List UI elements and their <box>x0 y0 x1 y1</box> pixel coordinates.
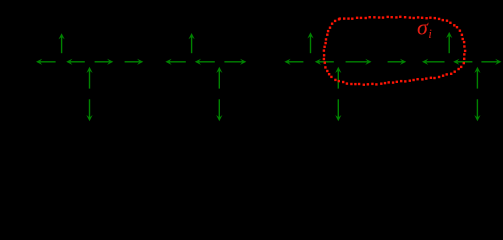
spin up-above arrow 4 <box>446 32 452 53</box>
spin up-below arrow 3 <box>335 67 341 89</box>
spin 11 right arrow <box>224 59 246 65</box>
spin 9 left arrow <box>195 59 215 65</box>
spin up-above arrow 2 <box>189 33 195 53</box>
spin up-above arrow 3 <box>307 32 313 53</box>
spin 14 left arrow <box>315 59 334 65</box>
spin 17 right arrow <box>388 59 407 65</box>
svg-text:i: i <box>428 27 432 41</box>
spin up-above arrow 1 <box>59 33 65 53</box>
spin 3 left arrow <box>66 59 85 65</box>
spin up-below arrow 4 <box>474 67 480 89</box>
spin 16 right arrow <box>346 59 372 65</box>
spin 18 left arrow <box>422 59 445 65</box>
spin 22 right arrow <box>481 59 501 65</box>
spin down-bottom arrow 3 <box>335 99 341 121</box>
red dotted loop around operator sigma_i region <box>323 16 467 86</box>
spin up-below arrow 2 <box>216 67 222 89</box>
spin 1 left arrow <box>36 59 56 65</box>
spin down-bottom arrow 2 <box>216 99 222 121</box>
spin down-bottom arrow 1 <box>86 99 92 121</box>
spin down-bottom arrow 4 <box>474 99 480 121</box>
svg-text:σ: σ <box>417 15 429 40</box>
spin 5 right arrow <box>95 59 114 65</box>
spin 12 left arrow <box>284 59 303 65</box>
spin up-below arrow 1 <box>86 67 92 89</box>
spin 7 left arrow <box>165 59 185 65</box>
spin 20 left arrow <box>453 59 472 65</box>
label sigma_i <box>417 15 432 42</box>
spin 6 right arrow <box>125 59 144 65</box>
